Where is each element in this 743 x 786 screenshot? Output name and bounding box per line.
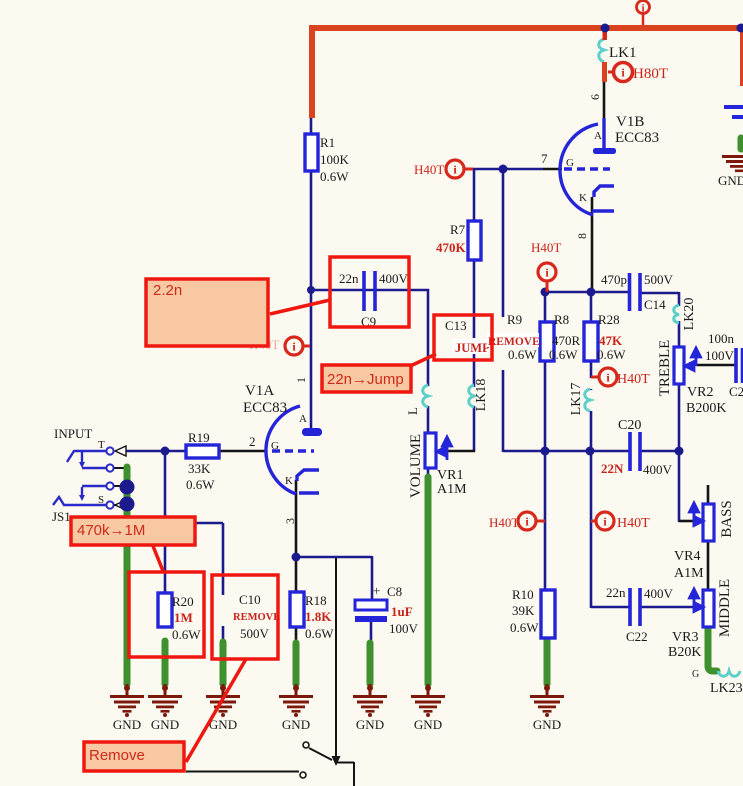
svg-text:0.6W: 0.6W: [305, 626, 334, 641]
svg-text:ECC83: ECC83: [243, 400, 287, 416]
svg-text:R18: R18: [305, 593, 327, 608]
svg-text:G: G: [566, 157, 574, 169]
svg-text:LK1: LK1: [609, 45, 637, 61]
svg-text:1.8K: 1.8K: [305, 609, 332, 624]
svg-text:39K: 39K: [512, 603, 535, 618]
svg-text:C20: C20: [618, 418, 641, 433]
svg-text:LK17: LK17: [569, 383, 584, 416]
svg-text:47K: 47K: [599, 333, 623, 348]
svg-text:1M: 1M: [174, 610, 193, 625]
svg-text:REMOVE: REMOVE: [233, 612, 280, 623]
svg-text:Remove: Remove: [89, 747, 145, 764]
svg-text:0.6W: 0.6W: [549, 347, 578, 362]
svg-text:C22: C22: [626, 629, 648, 644]
svg-text:22N: 22N: [601, 461, 624, 476]
svg-text:MIDDLE: MIDDLE: [717, 579, 733, 637]
svg-text:0.6W: 0.6W: [508, 347, 537, 362]
svg-text:i: i: [641, 3, 644, 15]
svg-text:B20K: B20K: [668, 645, 701, 660]
svg-text:C13: C13: [445, 318, 467, 333]
svg-text:22n→Jump: 22n→Jump: [327, 371, 404, 388]
svg-text:VR4: VR4: [674, 549, 700, 564]
svg-text:H40T: H40T: [489, 515, 519, 530]
svg-text:H40T: H40T: [531, 240, 561, 255]
svg-text:G: G: [692, 669, 699, 680]
svg-text:VR2: VR2: [687, 385, 713, 400]
svg-text:+: +: [373, 583, 380, 598]
svg-text:GND: GND: [718, 173, 743, 188]
svg-text:H40T: H40T: [414, 162, 444, 177]
svg-text:100V: 100V: [705, 348, 735, 363]
svg-text:A1M: A1M: [674, 566, 704, 581]
svg-text:LK20: LK20: [682, 298, 697, 331]
svg-text:VR1: VR1: [437, 468, 463, 483]
svg-text:33K: 33K: [188, 461, 211, 476]
svg-text:H40T: H40T: [617, 516, 650, 531]
svg-text:400V: 400V: [379, 271, 409, 286]
svg-text:0.6W: 0.6W: [510, 620, 539, 635]
svg-text:H80T: H80T: [633, 66, 668, 82]
svg-text:V1A: V1A: [245, 383, 274, 399]
svg-text:A: A: [594, 130, 602, 142]
svg-text:0.6W: 0.6W: [172, 627, 201, 642]
svg-text:C10: C10: [239, 592, 261, 607]
svg-text:100K: 100K: [320, 152, 350, 167]
svg-text:22n: 22n: [606, 585, 626, 600]
svg-text:BASS: BASS: [719, 500, 735, 538]
svg-text:400V: 400V: [643, 462, 673, 477]
svg-text:R20: R20: [172, 594, 194, 609]
svg-text:0.6W: 0.6W: [186, 477, 215, 492]
svg-text:T: T: [98, 439, 105, 451]
svg-text:3: 3: [283, 518, 297, 524]
svg-text:400V: 400V: [644, 586, 674, 601]
svg-text:470R: 470R: [552, 333, 581, 348]
svg-text:C2: C2: [729, 384, 743, 399]
svg-text:S: S: [98, 494, 104, 506]
svg-text:K: K: [579, 192, 587, 204]
svg-text:R19: R19: [188, 430, 210, 445]
svg-text:R28: R28: [598, 312, 620, 327]
svg-text:500V: 500V: [644, 272, 674, 287]
svg-text:R10: R10: [512, 587, 534, 602]
svg-text:2.2n: 2.2n: [153, 282, 182, 299]
svg-text:1uF: 1uF: [391, 604, 413, 619]
svg-text:LK23: LK23: [710, 681, 743, 696]
svg-text:VOLUME: VOLUME: [408, 434, 424, 498]
svg-text:C8: C8: [387, 584, 402, 599]
svg-text:470p: 470p: [601, 272, 627, 287]
svg-text:7: 7: [541, 151, 548, 166]
svg-text:470K: 470K: [436, 240, 467, 255]
svg-text:B200K: B200K: [686, 401, 726, 416]
svg-text:LK18: LK18: [474, 379, 489, 412]
svg-text:TREBLE: TREBLE: [657, 340, 673, 397]
svg-text:L: L: [405, 407, 420, 415]
svg-text:500V: 500V: [240, 626, 270, 641]
svg-text:JS1: JS1: [52, 509, 71, 524]
svg-text:8: 8: [575, 233, 589, 239]
svg-text:6: 6: [588, 94, 602, 100]
svg-text:470k→1M: 470k→1M: [77, 522, 145, 539]
svg-text:A1M: A1M: [437, 482, 467, 497]
svg-text:INPUT: INPUT: [54, 426, 92, 441]
svg-text:G: G: [271, 440, 279, 452]
svg-text:JUMP: JUMP: [455, 341, 490, 355]
svg-text:R8: R8: [554, 312, 569, 327]
svg-text:22n: 22n: [339, 271, 359, 286]
svg-text:ECC83: ECC83: [615, 130, 659, 146]
svg-text:100V: 100V: [389, 621, 419, 636]
svg-text:VR3: VR3: [672, 630, 698, 645]
svg-text:100n: 100n: [708, 331, 735, 346]
svg-text:0.6W: 0.6W: [320, 169, 349, 184]
svg-text:C14: C14: [644, 297, 666, 312]
svg-text:R9: R9: [507, 312, 522, 327]
svg-text:2: 2: [249, 434, 256, 449]
svg-text:1: 1: [294, 377, 308, 383]
svg-text:R7: R7: [450, 222, 466, 237]
svg-text:A: A: [299, 413, 307, 425]
svg-text:K: K: [285, 475, 293, 487]
svg-text:0.6W: 0.6W: [597, 347, 626, 362]
svg-text:V1B: V1B: [616, 114, 644, 130]
svg-text:R1: R1: [320, 135, 335, 150]
svg-text:H40T: H40T: [617, 372, 650, 387]
